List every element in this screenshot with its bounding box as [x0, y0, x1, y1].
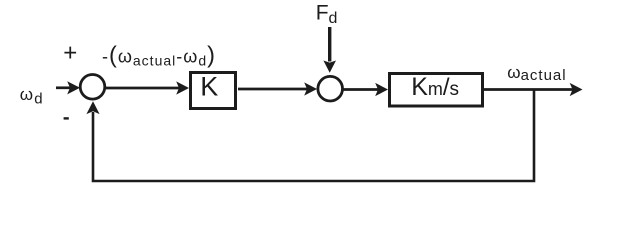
- svg-text:K: K: [200, 72, 218, 102]
- svg-text:Fd: Fd: [316, 2, 338, 27]
- svg-text:+: +: [63, 40, 77, 67]
- wire output arrow: [484, 83, 583, 96]
- block Km/s plant: [390, 73, 483, 106]
- wire Fd arrow down into S2: [323, 27, 336, 73]
- wire S1 to block K: [106, 81, 189, 94]
- block K controller: [191, 72, 236, 109]
- wire input arrow into summing junction S1: [56, 81, 80, 94]
- svg-text:ωd: ωd: [20, 85, 44, 107]
- summing junction S2: [318, 76, 343, 101]
- svg-text:Km/s: Km/s: [411, 73, 459, 101]
- wire S2 to block Km/s: [344, 83, 389, 96]
- svg-text:ωactual: ωactual: [507, 63, 566, 84]
- wire feedback path from output tap to S1: [86, 90, 534, 182]
- summing junction S1: [80, 75, 105, 100]
- minus sign: [64, 117, 69, 119]
- svg-text:-(ωactual-ωd): -(ωactual-ωd): [102, 42, 216, 69]
- wire K to summing junction S2: [238, 82, 317, 95]
